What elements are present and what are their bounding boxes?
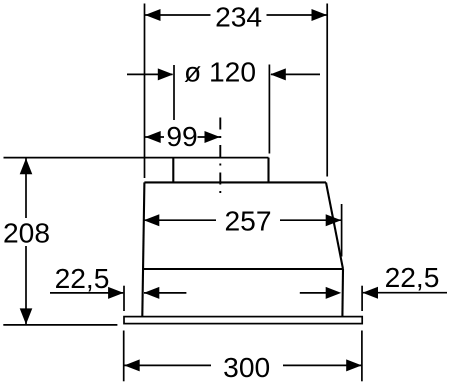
canopy top edge <box>144 181 326 183</box>
extension line bottom (208 height, under flange to left margin) <box>3 324 117 326</box>
svg-text:208: 208 <box>3 217 50 249</box>
dimension 300 line right segment <box>283 364 362 366</box>
label 22,5 left <box>55 262 110 294</box>
label 208 <box>3 217 50 249</box>
arrowhead 300 right <box>346 359 362 371</box>
label o 120 <box>184 56 256 88</box>
dimension 208 line lower segment <box>25 246 27 325</box>
dimension 208 line upper segment <box>25 158 27 218</box>
arrowhead 99 right <box>205 131 221 143</box>
extension line right (257 width) <box>341 204 343 257</box>
label 234 <box>215 0 262 32</box>
extension line right (22,5 offset, flange edge) <box>361 286 363 311</box>
label 300 <box>223 351 270 383</box>
svg-text:22,5: 22,5 <box>385 261 440 293</box>
dimension 22,5 right inner arrow line <box>300 287 341 299</box>
dimension 234 line left segment <box>145 14 211 16</box>
extension line left (diameter 120 duct) <box>173 65 175 120</box>
label 22,5 right <box>385 261 440 293</box>
extension line right (diameter 120 duct) <box>268 65 270 154</box>
extension line right (300 width) <box>361 331 363 382</box>
extension line left (300 width) <box>123 331 125 382</box>
arrowhead 208 up <box>20 158 33 174</box>
dimension 257 line left segment <box>144 219 216 221</box>
bottom flange plate <box>124 317 362 324</box>
duct collar right edge <box>267 158 269 183</box>
dimension 234 line right segment <box>267 14 328 16</box>
centerline of duct (dash-dot) <box>219 118 221 197</box>
arrowhead 99 left <box>145 131 161 143</box>
dimension 22,5 left outer arrow line <box>50 287 124 299</box>
svg-text:99: 99 <box>166 120 197 152</box>
arrowhead 257 left <box>144 214 160 226</box>
dimension arrow line o120 right <box>270 68 320 80</box>
svg-text:ø 120: ø 120 <box>184 56 256 88</box>
dimension 99 line right segment <box>198 136 221 138</box>
svg-text:300: 300 <box>223 351 270 383</box>
arrowhead 300 left <box>124 359 140 371</box>
dimension 22,5 right outer arrow line <box>363 287 448 299</box>
label 99 <box>166 120 197 152</box>
arrowhead 234 left <box>145 9 161 21</box>
canopy body left side <box>142 182 144 316</box>
extension line left (234 width, top of canopy) <box>144 4 146 179</box>
svg-text:234: 234 <box>215 0 262 32</box>
svg-text:22,5: 22,5 <box>55 262 110 294</box>
dimension 257 line right segment <box>280 219 341 221</box>
dimension 300 line left segment <box>124 364 211 366</box>
svg-text:257: 257 <box>224 205 271 237</box>
duct collar left edge <box>172 158 174 183</box>
dimension 22,5 left inner arrow line <box>144 287 187 299</box>
body right side below canopy <box>341 269 344 317</box>
label 257 <box>224 205 271 237</box>
extension line top (208 height, from duct top to left margin) + duct collar top edge <box>4 157 269 159</box>
canopy right slant side <box>326 182 343 269</box>
dimension arrow line o120 left <box>127 68 173 80</box>
canopy bottom edge <box>143 268 344 270</box>
arrowhead 257 right <box>326 214 342 226</box>
extension line left (22,5 offset, flange edge) <box>123 286 125 311</box>
dimension 99 line left segment <box>145 136 164 138</box>
extension line right (234 width, top of canopy) <box>326 4 328 177</box>
arrowhead 234 right <box>312 9 328 21</box>
arrowhead 208 down <box>20 308 33 324</box>
